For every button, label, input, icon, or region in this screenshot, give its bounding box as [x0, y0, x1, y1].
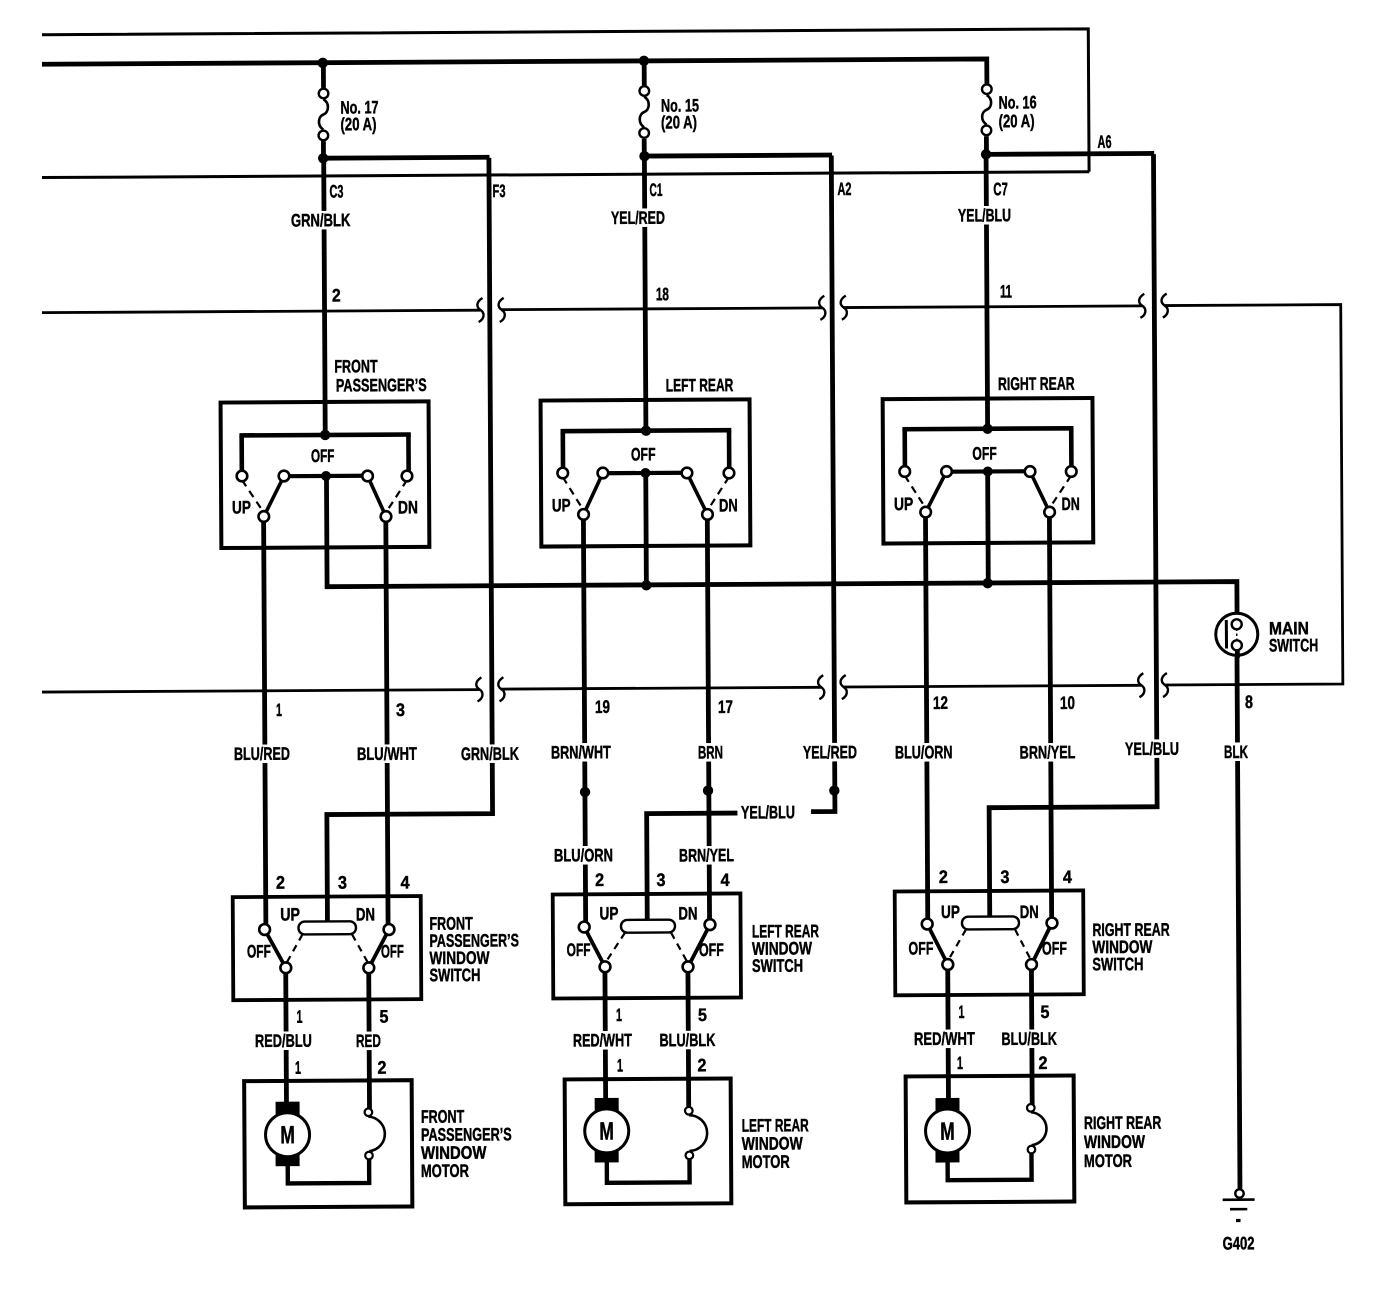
- svg-text:BLU/BLK: BLU/BLK: [1001, 1029, 1057, 1049]
- svg-text:2: 2: [939, 867, 948, 887]
- svg-text:1: 1: [295, 1058, 301, 1078]
- svg-text:OFF: OFF: [247, 941, 271, 961]
- svg-text:UP: UP: [894, 494, 913, 514]
- svg-text:2: 2: [1038, 1053, 1047, 1073]
- svg-text:UP: UP: [280, 904, 300, 924]
- svg-text:UP: UP: [599, 903, 618, 923]
- svg-text:GRN/BLK: GRN/BLK: [291, 210, 351, 230]
- svg-text:MOTOR: MOTOR: [421, 1161, 469, 1181]
- svg-text:RIGHT REAR: RIGHT REAR: [1084, 1113, 1161, 1133]
- svg-text:3: 3: [396, 700, 405, 720]
- svg-text:M: M: [280, 1121, 295, 1149]
- svg-text:RIGHT REAR: RIGHT REAR: [998, 374, 1075, 394]
- svg-text:OFF: OFF: [381, 941, 404, 961]
- svg-text:SWITCH: SWITCH: [1092, 954, 1143, 974]
- svg-text:4: 4: [1063, 867, 1072, 887]
- svg-text:4: 4: [401, 873, 410, 893]
- svg-text:BRN/YEL: BRN/YEL: [679, 845, 734, 865]
- svg-text:4: 4: [721, 870, 730, 890]
- svg-text:FRONT: FRONT: [334, 356, 377, 376]
- svg-text:No. 16: No. 16: [999, 92, 1037, 112]
- svg-text:OFF: OFF: [908, 938, 933, 958]
- svg-text:M: M: [599, 1118, 614, 1146]
- svg-text:10: 10: [1060, 693, 1075, 713]
- svg-text:WINDOW: WINDOW: [1084, 1132, 1145, 1152]
- svg-text:3: 3: [338, 873, 347, 893]
- svg-text:DN: DN: [398, 497, 418, 517]
- svg-text:UP: UP: [232, 497, 251, 517]
- svg-text:OFF: OFF: [972, 444, 997, 464]
- svg-text:SWITCH: SWITCH: [1269, 635, 1318, 655]
- svg-text:1: 1: [957, 1053, 963, 1073]
- svg-text:1: 1: [276, 700, 282, 720]
- svg-text:BLU/RED: BLU/RED: [234, 744, 290, 764]
- svg-text:MOTOR: MOTOR: [742, 1152, 790, 1172]
- svg-text:1: 1: [617, 1055, 623, 1075]
- svg-text:19: 19: [595, 697, 610, 717]
- svg-text:3: 3: [656, 870, 665, 890]
- svg-text:OFF: OFF: [1042, 938, 1067, 958]
- svg-text:BLU/BLK: BLU/BLK: [659, 1030, 715, 1050]
- svg-text:17: 17: [718, 697, 733, 717]
- svg-text:2: 2: [276, 873, 285, 893]
- svg-text:RED/BLU: RED/BLU: [255, 1031, 312, 1051]
- svg-text:(20 A): (20 A): [661, 112, 697, 132]
- svg-text:12: 12: [933, 693, 948, 713]
- svg-text:DN: DN: [1062, 494, 1080, 514]
- svg-text:1: 1: [616, 1005, 622, 1025]
- svg-text:A2: A2: [837, 179, 851, 199]
- svg-text:5: 5: [1040, 1002, 1049, 1022]
- svg-text:DN: DN: [1020, 902, 1039, 922]
- svg-text:DN: DN: [719, 495, 738, 515]
- svg-text:2: 2: [332, 285, 341, 305]
- svg-text:BRN/YEL: BRN/YEL: [1020, 742, 1076, 762]
- svg-text:UP: UP: [941, 902, 960, 922]
- svg-text:3: 3: [1000, 867, 1009, 887]
- svg-text:BLU/WHT: BLU/WHT: [357, 744, 417, 764]
- svg-text:2: 2: [377, 1058, 386, 1078]
- svg-text:BRN: BRN: [698, 742, 723, 762]
- svg-text:MOTOR: MOTOR: [1084, 1151, 1132, 1171]
- svg-text:18: 18: [656, 284, 669, 304]
- svg-text:UP: UP: [552, 495, 571, 515]
- svg-text:C7: C7: [993, 179, 1008, 199]
- svg-text:8: 8: [1245, 692, 1253, 712]
- svg-text:OFF: OFF: [567, 940, 591, 960]
- svg-text:RED/WHT: RED/WHT: [914, 1029, 975, 1049]
- svg-text:DN: DN: [356, 904, 375, 924]
- svg-text:1: 1: [296, 1007, 302, 1027]
- svg-text:C3: C3: [329, 181, 343, 201]
- svg-text:A6: A6: [1097, 132, 1111, 152]
- svg-text:M: M: [940, 1118, 955, 1146]
- svg-text:1: 1: [958, 1002, 964, 1022]
- svg-text:YEL/BLU: YEL/BLU: [958, 205, 1011, 225]
- svg-text:PASSENGER’S: PASSENGER’S: [336, 375, 427, 396]
- svg-text:YEL/RED: YEL/RED: [611, 208, 665, 228]
- svg-text:OFF: OFF: [699, 940, 724, 960]
- svg-text:SWITCH: SWITCH: [752, 956, 803, 976]
- svg-text:BRN/WHT: BRN/WHT: [551, 742, 611, 762]
- svg-text:G402: G402: [1223, 1233, 1255, 1253]
- svg-text:WINDOW: WINDOW: [742, 1133, 803, 1153]
- svg-text:YEL/BLU: YEL/BLU: [741, 802, 795, 822]
- svg-text:DN: DN: [678, 903, 697, 923]
- svg-text:RED: RED: [356, 1031, 381, 1051]
- svg-text:BLU/ORN: BLU/ORN: [895, 742, 953, 762]
- svg-text:SWITCH: SWITCH: [429, 965, 480, 985]
- svg-text:BLK: BLK: [1224, 742, 1248, 762]
- svg-text:F3: F3: [492, 181, 505, 201]
- svg-text:C1: C1: [649, 180, 662, 200]
- svg-text:OFF: OFF: [631, 444, 656, 464]
- svg-text:2: 2: [697, 1055, 706, 1075]
- svg-text:LEFT REAR: LEFT REAR: [666, 375, 734, 395]
- svg-text:RED/WHT: RED/WHT: [573, 1030, 632, 1050]
- svg-text:BLU/ORN: BLU/ORN: [554, 845, 613, 865]
- svg-text:GRN/BLK: GRN/BLK: [461, 744, 519, 764]
- svg-text:OFF: OFF: [311, 446, 335, 466]
- svg-text:11: 11: [1000, 281, 1012, 301]
- svg-text:YEL/RED: YEL/RED: [803, 742, 857, 762]
- svg-text:5: 5: [698, 1005, 707, 1025]
- svg-text:(20 A): (20 A): [340, 114, 376, 134]
- svg-text:YEL/BLU: YEL/BLU: [1125, 739, 1179, 759]
- svg-text:5: 5: [379, 1007, 388, 1027]
- svg-text:(20 A): (20 A): [999, 111, 1035, 131]
- svg-text:2: 2: [595, 870, 604, 890]
